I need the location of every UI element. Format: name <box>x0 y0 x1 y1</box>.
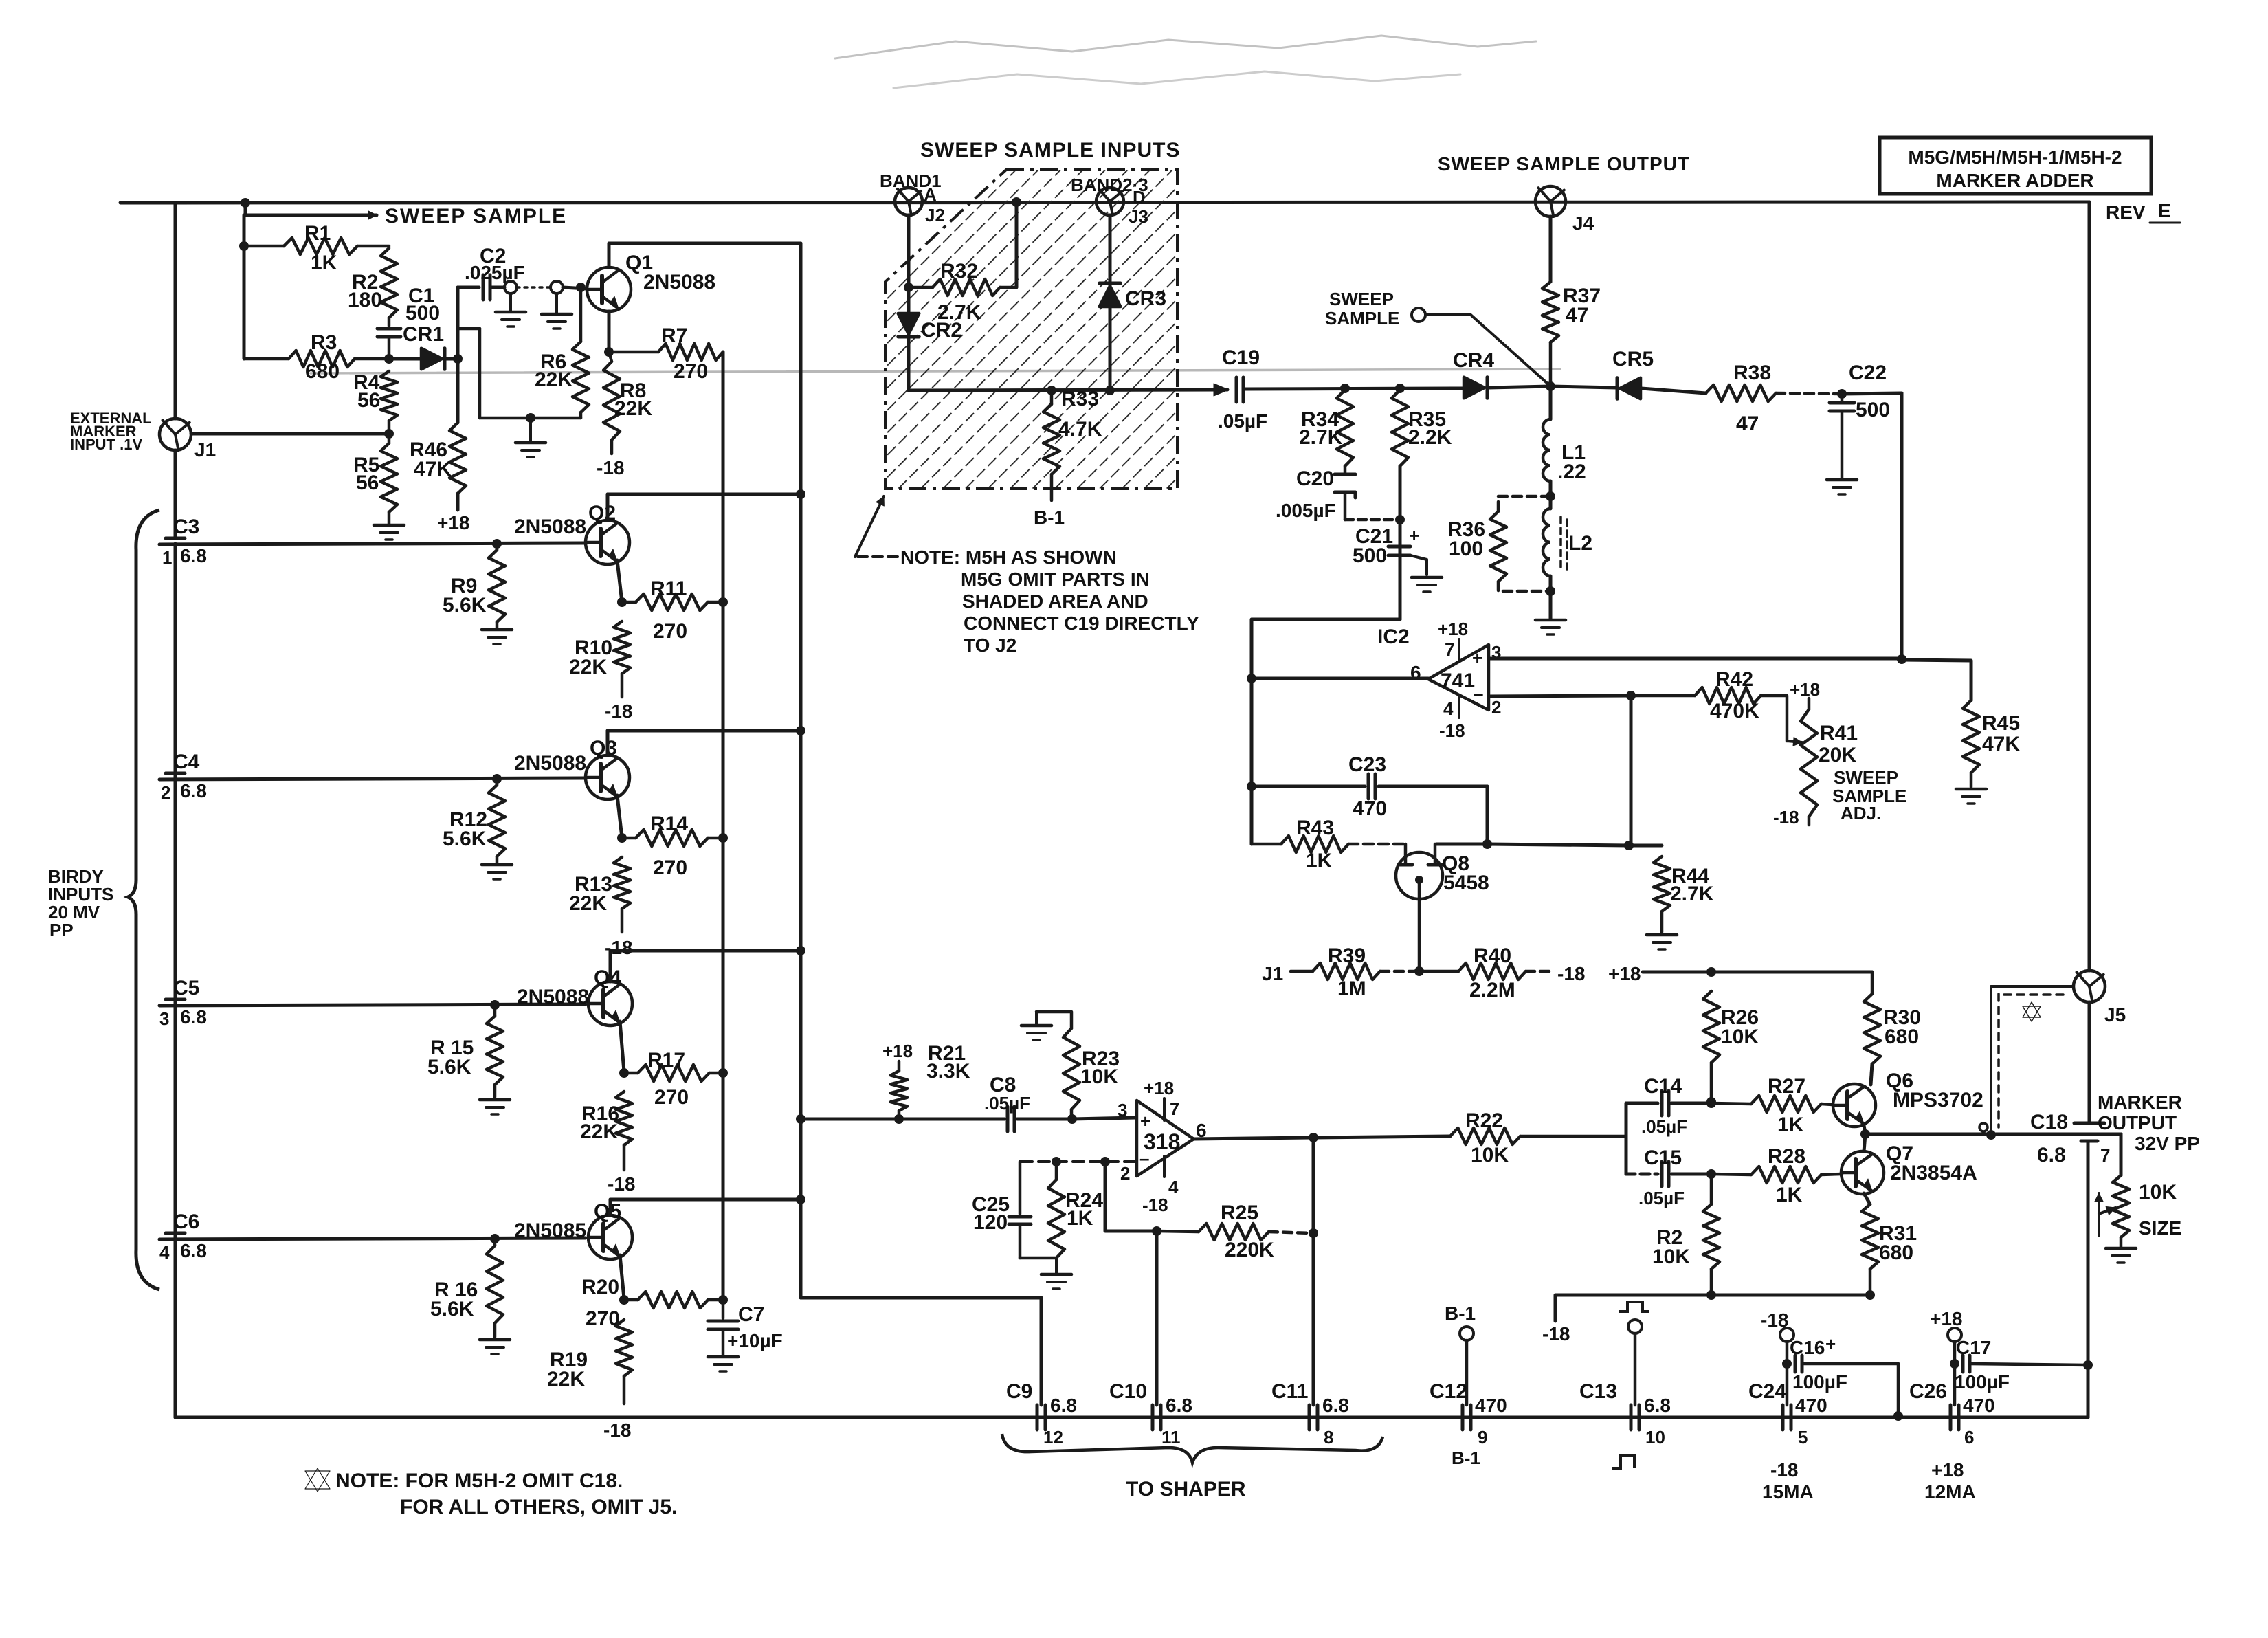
svg-text:10K: 10K <box>1721 1026 1759 1048</box>
wire <box>893 71 1460 88</box>
wire <box>606 494 610 520</box>
node junction <box>1546 381 1555 391</box>
resistor R22 <box>1450 1109 1626 1166</box>
node shaded area <box>885 170 1177 489</box>
node junction <box>526 413 535 423</box>
node junction <box>453 354 463 364</box>
svg-text:SIZE: SIZE <box>2139 1217 2181 1239</box>
capacitor C21 <box>1353 525 1427 575</box>
svg-text:47K: 47K <box>414 458 452 480</box>
ground <box>480 1340 510 1354</box>
resistor R6 <box>535 287 589 418</box>
node junction <box>796 1195 805 1204</box>
wire <box>620 1255 624 1298</box>
node SWEEP SAMPLE label <box>385 205 567 228</box>
node junction <box>1414 966 1424 976</box>
wire <box>1489 696 1631 696</box>
svg-text:J1: J1 <box>194 439 216 461</box>
svg-text:C14: C14 <box>1644 1075 1682 1098</box>
svg-text:R43: R43 <box>1296 817 1334 839</box>
svg-text:R14: R14 <box>650 812 688 835</box>
svg-text:10K: 10K <box>1652 1246 1690 1268</box>
wire <box>2087 1142 2090 1365</box>
node junction <box>1247 674 1256 683</box>
node +18 label <box>437 512 470 533</box>
svg-text:5.6K: 5.6K <box>443 828 487 850</box>
svg-text:6.8: 6.8 <box>180 1240 207 1261</box>
svg-text:7: 7 <box>1170 1098 1179 1119</box>
resistor R44 <box>1654 856 1714 932</box>
svg-text:100: 100 <box>1449 538 1483 560</box>
wire <box>311 369 1560 373</box>
wire <box>1643 971 1872 974</box>
resistor R1 <box>244 222 389 274</box>
wire <box>1399 466 1402 619</box>
wire <box>610 1198 801 1202</box>
svg-text:R40: R40 <box>1474 944 1511 967</box>
node sweep sample junction <box>241 198 250 208</box>
node small circle <box>1979 1123 1988 1131</box>
node -18 label <box>597 457 624 478</box>
svg-text:180: 180 <box>348 289 382 311</box>
node J1 label <box>1262 963 1283 984</box>
svg-text:270: 270 <box>674 360 708 383</box>
node junction <box>604 347 614 357</box>
resistor R32 <box>904 260 1016 324</box>
svg-text:PP: PP <box>49 920 74 940</box>
svg-text:R3: R3 <box>311 331 337 354</box>
capacitor feedthrough <box>496 281 572 329</box>
svg-text:3.3K: 3.3K <box>926 1060 970 1083</box>
node junction <box>1706 1290 1716 1300</box>
resistor R40 <box>1419 944 1552 1001</box>
resistor R35 <box>1392 390 1452 466</box>
resistor R43 <box>1252 817 1403 872</box>
svg-text:-18: -18 <box>605 700 632 722</box>
svg-text:R42: R42 <box>1715 668 1753 691</box>
node junction <box>718 833 728 843</box>
svg-text:10: 10 <box>1645 1427 1665 1448</box>
svg-text:5: 5 <box>1798 1427 1808 1448</box>
wire <box>159 543 586 544</box>
node junction <box>796 726 805 735</box>
node junction <box>1706 1097 1716 1107</box>
wire <box>120 202 2089 203</box>
svg-text:SWEEP SAMPLE INPUTS: SWEEP SAMPLE INPUTS <box>920 139 1181 162</box>
node junction <box>1837 389 1847 399</box>
node -18 label <box>1557 963 1585 984</box>
svg-text:+: + <box>1825 1333 1836 1354</box>
resistor R21 <box>891 1042 970 1119</box>
svg-text:C13: C13 <box>1579 1380 1617 1403</box>
wire <box>1900 393 1904 659</box>
resistor R46 <box>410 359 466 510</box>
svg-text:+18: +18 <box>1608 963 1641 984</box>
wire <box>1902 660 1971 700</box>
node B-1 label <box>1034 507 1065 528</box>
ground <box>482 865 512 879</box>
transistor Q7 <box>1841 1142 1977 1194</box>
svg-text:2N5088: 2N5088 <box>643 271 715 294</box>
node -18 label <box>605 700 632 722</box>
node junction <box>1100 1157 1110 1166</box>
svg-text:R41: R41 <box>1820 722 1858 744</box>
wire <box>1252 619 1400 844</box>
svg-text:470: 470 <box>1795 1395 1827 1416</box>
svg-text:Q2: Q2 <box>588 502 616 524</box>
node junction <box>1309 1133 1318 1142</box>
resistor R45 <box>1963 700 2020 787</box>
potentiometer R41 <box>1773 679 1858 828</box>
wire <box>159 1004 586 1006</box>
svg-text:R32: R32 <box>940 260 978 283</box>
wire <box>1487 844 1629 845</box>
node junction <box>1950 1359 1959 1369</box>
svg-text:6: 6 <box>1964 1427 1974 1448</box>
svg-text:A: A <box>924 184 937 205</box>
svg-text:C20: C20 <box>1296 467 1334 490</box>
resistor R8 <box>603 352 652 454</box>
svg-text:1K: 1K <box>1777 1114 1804 1136</box>
node junction <box>1782 1359 1792 1369</box>
resistor R5 <box>353 436 397 524</box>
svg-text:B-1: B-1 <box>1445 1303 1476 1324</box>
svg-text:2.7K: 2.7K <box>1670 883 1714 905</box>
resistor R9 <box>443 539 505 628</box>
resistor R10 <box>569 621 630 697</box>
wire <box>907 215 911 390</box>
wire <box>191 432 389 436</box>
wire <box>244 203 247 215</box>
node -18 label <box>603 1419 631 1441</box>
node junction <box>796 946 805 955</box>
svg-text:20K: 20K <box>1819 744 1856 766</box>
svg-text:J2: J2 <box>925 205 945 225</box>
node junction <box>1860 1129 1870 1139</box>
svg-text:CR5: CR5 <box>1612 348 1654 370</box>
node title box <box>1880 137 2151 194</box>
svg-text:2.7K: 2.7K <box>1299 426 1343 449</box>
svg-text:C15: C15 <box>1644 1147 1682 1169</box>
node junction <box>718 1295 728 1305</box>
capacitor C5 <box>159 977 207 1029</box>
svg-text:3: 3 <box>1118 1100 1127 1120</box>
svg-text:.05µF: .05µF <box>1638 1188 1685 1208</box>
capacitor C19 <box>1218 346 1267 432</box>
node junction <box>1247 782 1256 791</box>
svg-text:SWEEP: SWEEP <box>1834 767 1898 788</box>
svg-text:4.7K: 4.7K <box>1058 418 1102 441</box>
svg-text:.025µF: .025µF <box>465 262 525 283</box>
resistor R42 <box>1631 668 1787 741</box>
svg-text:741: 741 <box>1441 669 1475 692</box>
wire <box>174 544 177 1417</box>
node junction <box>1706 1169 1716 1179</box>
svg-text:+18: +18 <box>882 1041 913 1061</box>
svg-text:56: 56 <box>356 472 379 494</box>
wire <box>1245 388 1454 389</box>
capacitor C3 <box>162 516 207 568</box>
wire <box>1871 1064 1872 1085</box>
node EXTERNAL MARKER INPUT label <box>70 410 152 453</box>
resistor R30 <box>1864 972 1921 1083</box>
svg-text:FOR ALL OTHERS, OMIT J5.: FOR ALL OTHERS, OMIT J5. <box>400 1496 677 1518</box>
wire <box>1017 1118 1069 1121</box>
svg-text:R25: R25 <box>1221 1202 1258 1224</box>
svg-text:C26: C26 <box>1909 1380 1947 1403</box>
svg-text:47: 47 <box>1566 304 1588 327</box>
svg-text:5.6K: 5.6K <box>430 1298 474 1320</box>
svg-text:2: 2 <box>1491 697 1501 718</box>
resistor R15 <box>427 1000 503 1097</box>
node TO SHAPER brace <box>1002 1434 1383 1501</box>
svg-text:7: 7 <box>2100 1145 2110 1166</box>
node junction <box>1012 197 1021 207</box>
svg-text:CR3: CR3 <box>1125 287 1166 310</box>
svg-text:22K: 22K <box>569 656 607 678</box>
svg-text:6.8: 6.8 <box>180 545 207 566</box>
resistor R24 <box>1048 1162 1103 1258</box>
node junction <box>1067 1114 1077 1124</box>
node REV E <box>2106 200 2180 223</box>
wire <box>1991 986 2074 1133</box>
capacitor C18 <box>2030 1111 2110 1166</box>
resistor R4 <box>353 371 397 432</box>
diode CR2 <box>898 313 962 342</box>
svg-text:C5: C5 <box>173 977 199 999</box>
connector B-1 <box>1445 1303 1476 1405</box>
svg-text:Q3: Q3 <box>590 737 617 760</box>
svg-text:C17: C17 <box>1956 1337 1991 1358</box>
resistor R13 <box>569 857 630 932</box>
wire <box>1629 844 1662 848</box>
diode CR5 <box>1550 348 1706 399</box>
svg-text:R22: R22 <box>1465 1109 1503 1132</box>
svg-text:R28: R28 <box>1768 1145 1805 1168</box>
svg-text:2N5085: 2N5085 <box>514 1219 586 1242</box>
svg-text:11: 11 <box>1161 1427 1181 1448</box>
capacitor C2 <box>458 245 525 300</box>
svg-text:NOTE: M5H AS SHOWN: NOTE: M5H AS SHOWN <box>900 546 1117 568</box>
wire <box>899 1118 1005 1121</box>
node SWEEP SAMPLE tap <box>1325 289 1549 385</box>
wire <box>608 311 611 352</box>
resistor R26 <box>1703 991 1759 1100</box>
svg-text:680: 680 <box>1879 1241 1913 1264</box>
node junction <box>1706 1098 1716 1108</box>
svg-text:R33: R33 <box>1061 388 1099 410</box>
svg-text:22K: 22K <box>547 1368 585 1391</box>
wire <box>1486 786 1489 844</box>
node junction <box>576 283 586 292</box>
ground <box>482 630 512 644</box>
svg-text:10K: 10K <box>1080 1065 1118 1088</box>
svg-text:3: 3 <box>159 1008 169 1029</box>
svg-text:ADJ.: ADJ. <box>1841 803 1881 823</box>
node SWEEP SAMPLE OUTPUT label <box>1438 153 1690 175</box>
svg-text:NOTE: FOR M5H-2 OMIT C18.: NOTE: FOR M5H-2 OMIT C18. <box>335 1470 623 1492</box>
svg-text:5.6K: 5.6K <box>443 594 487 617</box>
ground <box>374 525 404 540</box>
node SWEEP SAMPLE ADJ label <box>1832 767 1906 823</box>
svg-text:9: 9 <box>1478 1427 1487 1448</box>
ground <box>1041 1258 1071 1289</box>
svg-text:MPS3702: MPS3702 <box>1893 1089 1983 1111</box>
svg-text:SWEEP SAMPLE OUTPUT: SWEEP SAMPLE OUTPUT <box>1438 153 1690 175</box>
svg-text:B-1: B-1 <box>1452 1448 1480 1468</box>
svg-text:C19: C19 <box>1222 346 1260 369</box>
svg-text:C9: C9 <box>1006 1380 1032 1403</box>
node junction <box>617 597 627 607</box>
svg-text:1K: 1K <box>1776 1184 1803 1206</box>
svg-text:100µF: 100µF <box>1792 1371 1847 1393</box>
svg-text:5458: 5458 <box>1443 872 1489 894</box>
node junction <box>1152 1226 1161 1236</box>
svg-text:C4: C4 <box>173 751 200 773</box>
svg-text:C18: C18 <box>2030 1111 2068 1133</box>
svg-text:10K: 10K <box>2139 1181 2177 1204</box>
svg-text:470: 470 <box>1353 797 1387 820</box>
node junction <box>384 429 394 439</box>
svg-text:4: 4 <box>1168 1177 1179 1197</box>
connector J2 <box>880 170 945 225</box>
diode CR4 <box>1453 349 1550 398</box>
wire <box>801 243 1041 1405</box>
wire <box>1630 696 1633 845</box>
wire <box>174 203 177 419</box>
resistor R34 <box>1299 390 1353 466</box>
wire <box>1864 1193 1870 1204</box>
svg-text:INPUT .1V: INPUT .1V <box>70 436 142 453</box>
svg-text:R27: R27 <box>1768 1075 1805 1098</box>
wire <box>1109 215 1112 390</box>
svg-text:6.8: 6.8 <box>180 780 207 801</box>
node junction <box>1897 654 1906 664</box>
resistor R27 <box>1711 1075 1832 1136</box>
svg-text:15MA: 15MA <box>1762 1481 1814 1503</box>
svg-text:C6: C6 <box>173 1210 199 1233</box>
capacitor C20 <box>1276 466 1400 521</box>
svg-text:+: + <box>1140 1111 1150 1131</box>
wire <box>159 1238 586 1239</box>
node junction <box>796 489 805 499</box>
svg-text:8: 8 <box>1324 1427 1333 1448</box>
transistor Q5 <box>514 1200 632 1259</box>
svg-text:.05µF: .05µF <box>984 1093 1030 1114</box>
svg-text:120: 120 <box>973 1211 1008 1234</box>
svg-text:-18: -18 <box>597 457 624 478</box>
svg-text:7: 7 <box>1445 639 1454 660</box>
svg-text:C11: C11 <box>1271 1380 1308 1403</box>
svg-text:Q5: Q5 <box>594 1200 621 1223</box>
svg-text:C23: C23 <box>1348 753 1386 776</box>
wire <box>456 287 460 359</box>
svg-text:C7: C7 <box>738 1303 764 1326</box>
svg-text:47K: 47K <box>1982 733 2020 755</box>
node junction <box>1309 1228 1318 1238</box>
ground <box>1647 935 1677 949</box>
svg-text:.22: .22 <box>1557 461 1586 483</box>
svg-text:-18: -18 <box>1439 720 1465 741</box>
wire <box>609 1199 612 1215</box>
svg-text:6.8: 6.8 <box>1644 1395 1671 1416</box>
potentiometer SIZE 10K <box>2095 1134 2182 1247</box>
ground <box>480 1100 510 1114</box>
wire <box>835 36 1536 58</box>
capacitor C23 <box>1252 753 1487 820</box>
node junction <box>894 1114 904 1124</box>
node junction <box>1626 691 1636 700</box>
wire <box>2087 1365 2090 1417</box>
svg-text:-18: -18 <box>1770 1459 1798 1481</box>
node junction <box>1546 491 1555 501</box>
wire <box>159 778 586 779</box>
svg-text:OUTPUT: OUTPUT <box>2098 1112 2177 1133</box>
diode CR1 <box>389 323 458 369</box>
svg-text:R38: R38 <box>1733 362 1771 384</box>
svg-text:500: 500 <box>405 302 440 324</box>
connector J1 <box>159 419 216 461</box>
svg-text:C12: C12 <box>1430 1380 1467 1403</box>
svg-text:+18: +18 <box>1930 1308 1963 1329</box>
wire <box>610 949 801 953</box>
transistor Q1 <box>587 252 715 311</box>
transistor Q8 <box>1396 844 1489 971</box>
svg-text:10K: 10K <box>1471 1144 1509 1166</box>
svg-text:R45: R45 <box>1982 712 2020 735</box>
wire <box>1155 1231 1159 1405</box>
node junction <box>1395 515 1405 524</box>
wire <box>1549 576 1553 619</box>
node junction <box>1865 1290 1875 1300</box>
svg-text:SWEEP: SWEEP <box>1329 289 1394 309</box>
capacitor C8 <box>984 1074 1030 1131</box>
svg-text:+10µF: +10µF <box>727 1330 783 1351</box>
resistor R36 <box>1447 496 1550 591</box>
svg-text:R39: R39 <box>1328 944 1366 967</box>
wire <box>801 1118 896 1121</box>
wire <box>1194 1138 1311 1139</box>
inductor L1 <box>1543 386 1586 509</box>
capacitor C12 <box>1430 1380 1507 1468</box>
node junction <box>1052 1157 1061 1166</box>
svg-text:E: E <box>2158 200 2171 221</box>
capacitor C16 <box>1790 1333 1898 1415</box>
wire <box>1864 1134 1865 1151</box>
ground <box>1827 480 1857 494</box>
resistor R7 <box>609 324 723 383</box>
transistor Q4 <box>517 966 632 1026</box>
ground <box>1956 789 1986 804</box>
svg-text:-18: -18 <box>608 1173 635 1195</box>
svg-text:2N5088: 2N5088 <box>514 752 586 775</box>
svg-text:100µF: 100µF <box>1955 1371 2010 1393</box>
svg-text:MARKER ADDER: MARKER ADDER <box>1936 170 2093 191</box>
svg-text:1: 1 <box>162 547 172 568</box>
ground <box>515 418 546 457</box>
resistor R18 <box>430 1234 503 1337</box>
svg-text:1K: 1K <box>1306 850 1333 872</box>
inductor L2 <box>1543 509 1592 576</box>
svg-text:22K: 22K <box>569 892 607 915</box>
ground <box>2106 1248 2136 1263</box>
capacitor C1 <box>377 285 440 359</box>
resistor R39 <box>1291 944 1417 1000</box>
wire <box>609 951 612 982</box>
svg-text:2: 2 <box>1120 1163 1130 1184</box>
svg-text:2N3854A: 2N3854A <box>1890 1162 1977 1184</box>
node junction <box>1482 839 1492 849</box>
